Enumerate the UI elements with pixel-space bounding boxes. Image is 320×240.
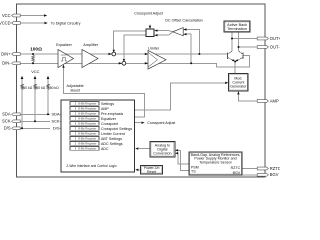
svg-text:ADC Settings: ADC Settings bbox=[101, 142, 123, 146]
svg-text:OUT-: OUT- bbox=[270, 44, 280, 49]
svg-text:Crosspoint Settings: Crosspoint Settings bbox=[101, 127, 132, 131]
svg-text:8-Bit Register: 8-Bit Register bbox=[78, 147, 96, 151]
svg-text:RZTC: RZTC bbox=[231, 166, 241, 170]
svg-text:Termination: Termination bbox=[227, 27, 247, 31]
svg-text:DIN+: DIN+ bbox=[1, 51, 11, 56]
svg-text:8-Bit Register: 8-Bit Register bbox=[78, 137, 96, 141]
svg-text:TS: TS bbox=[191, 170, 196, 174]
svg-text:8-Bit Register: 8-Bit Register bbox=[78, 127, 96, 131]
svg-text:Equalizer: Equalizer bbox=[56, 43, 73, 47]
svg-text:D/S: D/S bbox=[4, 126, 11, 131]
svg-text:SCK: SCK bbox=[51, 119, 60, 124]
svg-text:2-Wire Interface and Control L: 2-Wire Interface and Control Logic bbox=[66, 164, 117, 168]
svg-text:AMP: AMP bbox=[101, 107, 109, 111]
svg-text:BGV: BGV bbox=[270, 172, 279, 177]
svg-text:VCCD: VCCD bbox=[0, 20, 11, 25]
svg-text:To Digital Circuitry: To Digital Circuitry bbox=[51, 21, 81, 25]
svg-text:100Ω: 100Ω bbox=[30, 46, 42, 52]
svg-text:Temperature Sensor: Temperature Sensor bbox=[199, 161, 232, 165]
svg-text:8-Bit Register: 8-Bit Register bbox=[78, 117, 96, 121]
svg-text:Generator: Generator bbox=[230, 85, 247, 89]
svg-text:Limiter: Limiter bbox=[148, 46, 160, 50]
svg-text:SDA: SDA bbox=[51, 112, 60, 117]
svg-text:DIN-: DIN- bbox=[2, 61, 11, 66]
svg-text:8-Bit Register: 8-Bit Register bbox=[78, 102, 96, 106]
svg-text:ADC: ADC bbox=[101, 147, 109, 151]
svg-text:D/S: D/S bbox=[53, 126, 60, 131]
svg-text:AMP: AMP bbox=[270, 98, 279, 103]
svg-text:VCC: VCC bbox=[2, 13, 11, 18]
svg-text:SDA: SDA bbox=[2, 112, 11, 117]
svg-text:Crosspoint Adjust: Crosspoint Adjust bbox=[134, 12, 163, 16]
svg-text:Conversion: Conversion bbox=[153, 152, 171, 156]
svg-text:Crosspoint: Crosspoint bbox=[101, 122, 118, 126]
svg-text:Amplifier: Amplifier bbox=[83, 43, 99, 47]
svg-text:8-Bit Register: 8-Bit Register bbox=[78, 112, 96, 116]
svg-text:Settings: Settings bbox=[101, 102, 114, 106]
svg-text:Boost: Boost bbox=[71, 89, 80, 93]
svg-text:VCC: VCC bbox=[31, 69, 39, 74]
svg-text:ABT Settings: ABT Settings bbox=[101, 137, 122, 141]
svg-text:8-Bit Register: 8-Bit Register bbox=[78, 142, 96, 146]
svg-text:SCK: SCK bbox=[2, 119, 11, 124]
svg-text:Limiter Current: Limiter Current bbox=[101, 132, 125, 136]
svg-text:Crosspoint Adjust: Crosspoint Adjust bbox=[147, 121, 175, 125]
svg-text:50 kΩ: 50 kΩ bbox=[23, 86, 32, 90]
svg-text:RZTC: RZTC bbox=[270, 166, 280, 171]
svg-text:50 kΩ: 50 kΩ bbox=[36, 86, 45, 90]
svg-text:8-Bit Register: 8-Bit Register bbox=[78, 107, 96, 111]
svg-text:Pre-emphasis: Pre-emphasis bbox=[101, 112, 123, 116]
svg-text:DC Offset Cancellation: DC Offset Cancellation bbox=[165, 18, 202, 22]
svg-text:Equalizer: Equalizer bbox=[101, 117, 117, 121]
svg-text:OUT+: OUT+ bbox=[270, 36, 280, 41]
svg-text:Adjustable: Adjustable bbox=[67, 84, 84, 88]
svg-text:50 kΩ: 50 kΩ bbox=[50, 86, 59, 90]
svg-text:Reset: Reset bbox=[147, 170, 156, 174]
svg-text:8-Bit Register: 8-Bit Register bbox=[78, 122, 96, 126]
svg-text:8-Bit Register: 8-Bit Register bbox=[78, 132, 96, 136]
svg-text:BGV: BGV bbox=[233, 171, 241, 175]
